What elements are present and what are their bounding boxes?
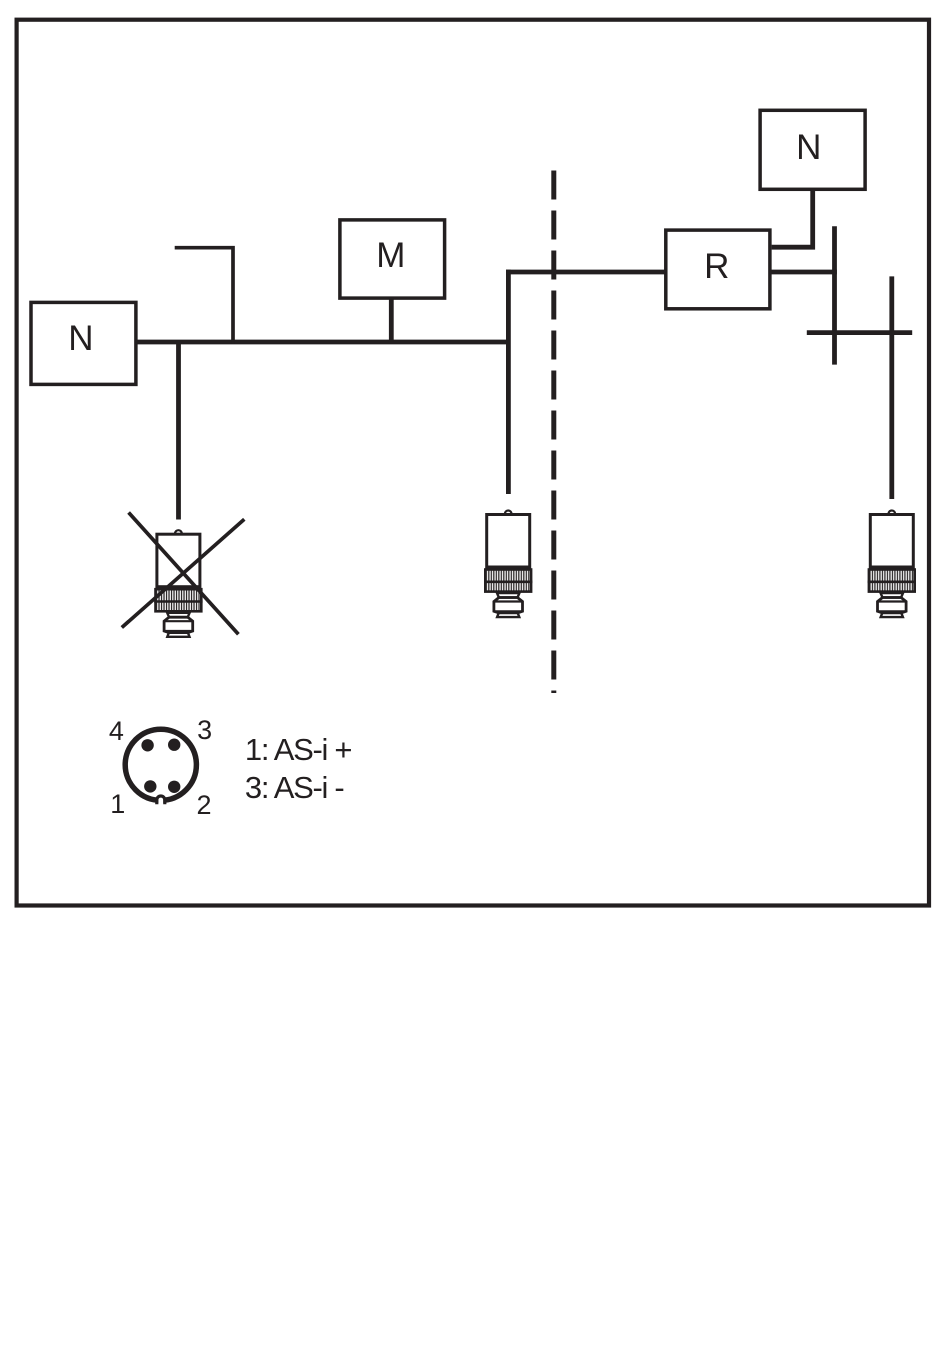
svg-text:M: M [376,236,405,275]
keyway bump [157,796,165,804]
wire drop to sensor S1 [176,342,181,520]
svg-text:N: N [68,319,93,358]
wire main bus [136,340,511,345]
wire extension cross bar [807,330,912,335]
keyway slot [158,797,163,806]
wire extension segment 1 [832,226,837,364]
wire extension segment 2 to sensor S3 [889,276,894,499]
box N1 (left network node) [31,302,136,384]
svg-text:1: 1 [110,789,125,819]
connector face ring [125,729,196,800]
svg-text:1: AS-i +: 1: AS-i + [245,732,352,767]
svg-text:3: AS-i -: 3: AS-i - [245,770,344,805]
svg-text:3: 3 [197,715,212,745]
svg-text:R: R [704,247,729,286]
pin 1 dot [144,780,156,792]
svg-text:N: N [796,128,821,167]
wire riser at bus end [506,270,511,494]
dashed segment divider [551,171,556,694]
wire M drop [389,298,394,342]
sensor S1 (crossed out) [154,530,202,637]
pin 4 dot [141,739,153,751]
sensor S3 [868,511,916,618]
box M (master) [340,220,445,298]
svg-text:4: 4 [109,716,124,746]
svg-text:2: 2 [196,790,211,820]
pin 3 dot [168,739,180,751]
box R (repeater) [666,230,770,309]
wire R right to extension [770,270,837,275]
wire bus to R left [506,270,666,275]
cross-out line 2 [122,519,245,627]
wire open stub [175,248,233,344]
wire N2 elbow to R [772,189,813,247]
cross-out line 1 [129,513,239,635]
outer frame [17,20,929,906]
pin 2 dot [168,781,180,793]
sensor S2 [484,511,532,618]
box N2 (right network node) [760,110,865,189]
